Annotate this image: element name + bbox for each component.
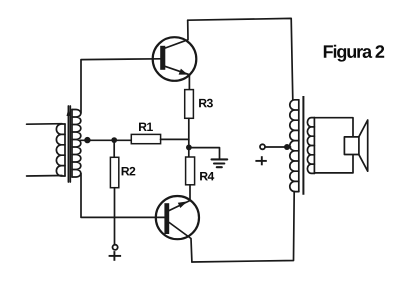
label plus right (255, 156, 266, 165)
wire input top lead (27, 123, 62, 126)
wire T1 secondary top to Q1 base (81, 59, 160, 113)
node T2 center tap (284, 144, 290, 150)
transformer T2 primary winding (290, 100, 299, 192)
resistor R2 (110, 157, 118, 187)
terminal right battery (260, 144, 265, 149)
node center tap junction (84, 137, 90, 143)
wire input bottom lead (27, 175, 62, 178)
wire Q2 emitter (169, 185, 190, 211)
wire T2 secondary bottom to speaker (314, 155, 353, 173)
label Figura 2 (324, 45, 384, 62)
label R3 (199, 99, 213, 108)
terminal left battery (113, 245, 118, 250)
label R1 (139, 123, 153, 131)
wire T2 center tap (265, 146, 290, 148)
wire R1 to node (161, 138, 189, 140)
transformer T2 secondary winding (307, 118, 314, 174)
transformer T1 core (67, 106, 71, 182)
node emitter junction (186, 145, 192, 151)
transistor Q1 (153, 37, 197, 81)
wire R3 to R4 (188, 118, 190, 157)
transistor Q2 (156, 196, 199, 239)
transformer T1 primary winding (56, 124, 65, 176)
wire R2 to battery terminal (114, 188, 116, 245)
wire Q2 collector (169, 223, 192, 263)
label plus left (109, 251, 122, 261)
wire T1 center tap (80, 139, 131, 141)
transformer T1 secondary winding (72, 110, 81, 178)
wire Q1 emitter (165, 66, 189, 89)
node R2 top junction (111, 137, 117, 143)
resistor R3 (185, 90, 194, 119)
label R4 (200, 172, 214, 180)
wire T1 secondary bottom to Q2 base (81, 173, 164, 217)
wire top rail (188, 18, 293, 99)
wire T2 secondary top to speaker (314, 118, 353, 137)
ground (212, 159, 228, 167)
resistor R1 (131, 134, 160, 143)
transformer T2 core (302, 96, 304, 195)
wire ground branch (189, 148, 220, 159)
speaker LS1 (344, 120, 367, 171)
label R2 (122, 167, 136, 176)
wire R2 top (113, 140, 115, 157)
wire bottom rail (192, 192, 294, 263)
wire Q1 collector (165, 20, 188, 48)
resistor R4 (186, 157, 195, 185)
